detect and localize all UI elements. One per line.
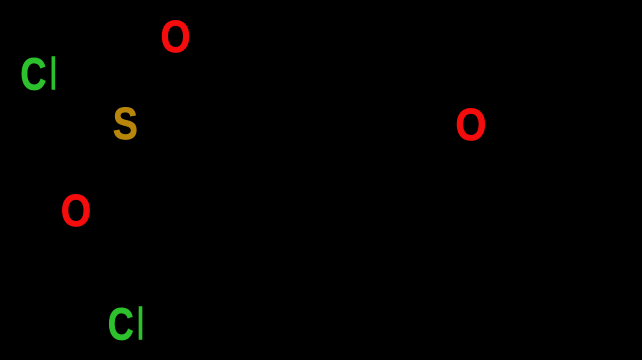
- atom label Cl ring chloro substituent: [108, 299, 145, 350]
- bond S=O top double bond: [133, 57, 166, 103]
- svg-text:l: l: [136, 299, 144, 350]
- atom label S sulfur: [113, 99, 138, 149]
- atom label O methoxy oxygen: [455, 100, 486, 151]
- bond S=O lower-left double bond: [85, 143, 118, 189]
- svg-text:O: O: [161, 11, 191, 61]
- bond S-Cl single: [65, 89, 104, 111]
- benzene ring outer edges: [187, 98, 429, 360]
- aromatic inner line C5=C6 lower-left: [214, 305, 297, 353]
- aromatic inner line C1=C2 upper-left: [214, 123, 297, 171]
- svg-text:l: l: [49, 49, 57, 100]
- atom label O sulfonyl top oxygen: [161, 11, 191, 61]
- bond S-C1 single: [146, 138, 187, 168]
- atom label O sulfonyl lower oxygen: [61, 185, 91, 235]
- svg-text:S: S: [113, 99, 138, 149]
- svg-text:C: C: [20, 49, 46, 100]
- svg-text:O: O: [455, 100, 486, 151]
- svg-text:O: O: [61, 185, 91, 235]
- bond C3-O methoxy: [429, 146, 450, 168]
- aromatic inner line C3=C4 right: [410, 190, 416, 286]
- bond O-CH3 methyl: [497, 54, 592, 109]
- atom label Cl sulfonyl chloride: [20, 49, 57, 100]
- bond C6-Cl ring chloro: [152, 308, 187, 316]
- svg-text:C: C: [108, 299, 134, 350]
